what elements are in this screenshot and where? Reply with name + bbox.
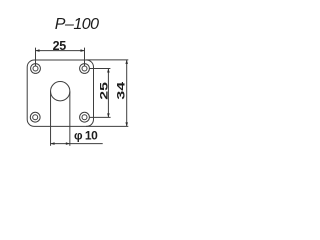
- arrowhead right 25 bottom: [107, 113, 110, 117]
- extension line from plate bottom edge: [86, 125, 128, 127]
- svg-text:P–100: P–100: [55, 16, 99, 33]
- arrowhead φ10 right: [66, 142, 70, 145]
- arrowhead φ10 left: [51, 142, 55, 145]
- extension line from top-right hole: [90, 68, 111, 70]
- plate outline (jack plate body): [27, 60, 93, 126]
- extension line from bottom-right hole: [90, 116, 111, 118]
- jack hole (center, φ10): [51, 82, 70, 101]
- arrowhead right 25 top: [107, 69, 110, 73]
- svg-text:25: 25: [98, 82, 110, 100]
- svg-text:34: 34: [115, 81, 127, 99]
- screw hole bottom-left inner: [33, 115, 38, 120]
- screw hole bottom-left outer: [30, 112, 40, 122]
- screw hole top-right outer: [80, 64, 90, 74]
- screw hole top-left inner: [33, 66, 38, 71]
- extension line left (top 25 dim): [35, 48, 37, 67]
- dimension line right 34: [126, 60, 128, 127]
- screw hole top-left outer: [31, 64, 41, 74]
- arrowhead top dim left: [36, 49, 40, 52]
- svg-text:25: 25: [53, 39, 67, 53]
- extension line from plate top edge: [86, 59, 128, 61]
- arrowhead top dim right: [81, 49, 85, 52]
- arrowhead right 34 bottom: [125, 122, 128, 126]
- extension line right tangent (φ10): [69, 92, 71, 146]
- dimension line right 25: [107, 69, 109, 118]
- dimension line top 25: [36, 50, 85, 52]
- screw hole top-right inner: [82, 66, 87, 71]
- extension line left tangent (φ10): [50, 92, 52, 146]
- dimension/leader line bottom φ10: [50, 143, 102, 145]
- svg-text:φ 10: φ 10: [74, 129, 98, 143]
- screw hole bottom-right outer: [80, 112, 90, 122]
- screw hole bottom-right inner: [82, 115, 87, 120]
- extension line right (top 25 dim): [84, 48, 86, 67]
- arrowhead right 34 top: [125, 60, 128, 64]
